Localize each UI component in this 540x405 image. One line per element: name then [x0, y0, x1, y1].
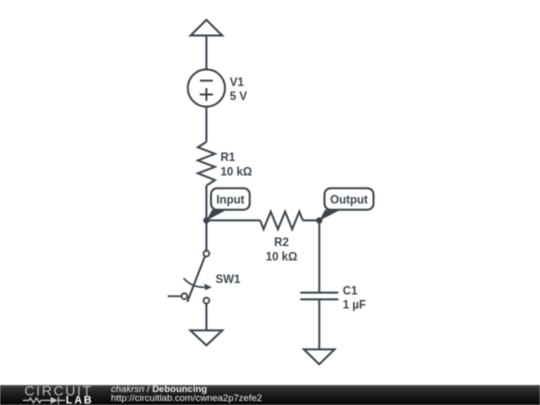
- junction dot node Output: [316, 217, 322, 223]
- wire Output to C1: [318, 220, 320, 292]
- svg-text:LAB: LAB: [66, 395, 94, 405]
- svg-text:V1: V1: [230, 77, 245, 89]
- junction dot node Input: [203, 217, 209, 223]
- svg-text:1 µF: 1 µF: [343, 299, 366, 311]
- node label Output box: [325, 188, 374, 209]
- node label Input callout tail: [206, 210, 226, 221]
- resistor R1: [198, 142, 215, 186]
- node label Output callout tail: [319, 210, 340, 221]
- wire C1 to ground: [318, 299, 320, 349]
- ground under SW1: [190, 330, 222, 345]
- wire R1 to switch: [205, 186, 207, 251]
- svg-text:R1: R1: [221, 152, 236, 164]
- voltage source V1: [188, 69, 225, 106]
- footer bar: [0, 385, 540, 405]
- svg-text:http://circuitlab.com/cwnea2p7: http://circuitlab.com/cwnea2p7zefe2: [111, 393, 262, 404]
- resistor R2: [260, 212, 303, 230]
- capacitor C1: [300, 293, 338, 300]
- svg-text:5 V: 5 V: [230, 91, 248, 103]
- logo resistor-diode squiggle: [23, 397, 65, 404]
- svg-text:10 kΩ: 10 kΩ: [221, 167, 253, 179]
- svg-text:R2: R2: [274, 237, 289, 249]
- svg-text:SW1: SW1: [216, 274, 242, 286]
- svg-text:C1: C1: [343, 286, 358, 298]
- svg-text:Input: Input: [216, 194, 244, 206]
- node label Input box: [211, 188, 250, 209]
- wire V1 to R1: [205, 107, 207, 142]
- ground under C1: [304, 349, 335, 364]
- switch SW1: [168, 251, 212, 304]
- wire SW1 to ground: [205, 304, 207, 331]
- svg-text:Output: Output: [330, 194, 368, 206]
- power flag VDD: [191, 20, 223, 36]
- wire power to V1: [205, 36, 207, 70]
- svg-text:10 kΩ: 10 kΩ: [266, 251, 298, 263]
- wire node Input horizontal: [206, 219, 319, 221]
